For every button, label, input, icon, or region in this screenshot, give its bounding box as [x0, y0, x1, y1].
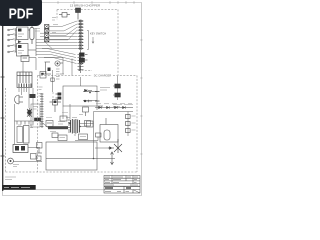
value label	[30, 125, 34, 128]
battery BT1	[46, 142, 97, 170]
resistor R2	[46, 121, 53, 127]
diode D5	[18, 40, 22, 43]
contactor K8	[79, 53, 87, 57]
contactor K6 coil	[24, 126, 30, 144]
fuse F3	[51, 78, 54, 81]
component X2	[59, 13, 70, 18]
wire	[93, 142, 95, 159]
meter M2	[8, 158, 14, 164]
wire arrow	[92, 37, 94, 43]
wire	[28, 49, 36, 51]
contactor K12	[56, 93, 62, 100]
switch S5	[8, 51, 17, 53]
value label	[132, 116, 136, 130]
value label	[50, 122, 65, 132]
component X4	[37, 156, 42, 161]
relay K10	[113, 93, 120, 97]
scanned page left edge	[2, 24, 4, 191]
wire	[80, 77, 82, 86]
wire	[13, 161, 42, 163]
converter box U2	[100, 118, 118, 142]
relay K11b	[31, 154, 37, 160]
wire	[44, 58, 64, 75]
note text	[5, 177, 16, 180]
wire junction	[79, 126, 80, 127]
svg-text:PDF: PDF	[9, 5, 34, 22]
connector J3	[30, 94, 36, 98]
wire junction	[69, 123, 70, 124]
resistor R3	[60, 116, 67, 121]
terminal block TB1	[17, 72, 32, 88]
wire	[75, 137, 110, 149]
bracket	[87, 31, 89, 50]
contactor K7 contacts	[13, 145, 40, 153]
svg-text:DC CHARGER: DC CHARGER	[94, 74, 112, 78]
value label	[96, 103, 132, 105]
relay K3	[21, 56, 29, 62]
switch S4	[8, 45, 17, 47]
diode D3	[85, 89, 100, 93]
svg-text:KEY SWITCH: KEY SWITCH	[90, 32, 106, 36]
relay K9	[113, 84, 120, 88]
value label	[34, 18, 58, 33]
diode chain D2	[95, 106, 133, 109]
fuse F1	[30, 25, 34, 44]
switch S2	[8, 34, 17, 36]
relay K13	[87, 121, 94, 127]
dashed enclosure: DC charger system	[6, 71, 138, 173]
transformer T1	[71, 119, 80, 134]
wire	[40, 104, 94, 136]
footer label bar	[2, 185, 104, 190]
wire	[22, 62, 24, 73]
relay K16	[50, 100, 62, 113]
wire	[35, 28, 37, 56]
value label	[13, 165, 19, 167]
wire	[94, 112, 134, 143]
title block	[104, 176, 140, 194]
resistor R6	[79, 134, 88, 140]
terminal strip TB3	[45, 25, 49, 42]
relay K14	[58, 135, 67, 141]
value label	[39, 87, 55, 97]
capacitor C2	[79, 58, 87, 62]
PDF badge	[0, 0, 42, 26]
value label	[100, 88, 110, 91]
connector J1	[78, 20, 84, 71]
value label	[66, 115, 83, 118]
relay K17	[40, 72, 46, 79]
contactor K4	[27, 108, 32, 117]
bus bar	[15, 121, 41, 125]
diode D4	[84, 100, 100, 103]
component X3	[37, 143, 43, 154]
fan M4	[108, 139, 122, 153]
terminal strip TB2	[40, 93, 44, 128]
switch S1	[8, 29, 17, 31]
charger enclosure box	[63, 86, 103, 110]
fuse F2	[83, 107, 89, 116]
relay K15	[52, 133, 58, 138]
wire	[14, 104, 16, 121]
wire	[80, 66, 82, 71]
value label	[46, 113, 68, 118]
wire	[71, 59, 73, 76]
svg-text:13 BRUSH CHOPPER: 13 BRUSH CHOPPER	[70, 4, 101, 8]
value label	[56, 69, 60, 79]
dashed enclosure: chopper panel	[57, 10, 118, 76]
wire	[19, 88, 33, 121]
wire harness W2	[36, 41, 77, 64]
relay K2	[17, 44, 29, 57]
value label	[113, 105, 133, 107]
title block text	[105, 177, 138, 185]
wire	[29, 58, 36, 71]
shunt R5	[46, 152, 115, 165]
bus node B+	[80, 20, 82, 74]
wire harness W1	[36, 21, 77, 48]
wire	[14, 121, 16, 144]
enclosure box	[31, 104, 40, 127]
sheet border	[3, 3, 142, 196]
component X1	[76, 8, 81, 20]
wire junction	[93, 158, 95, 160]
capacitor C1	[35, 118, 41, 121]
wire	[117, 76, 119, 100]
transformer T1 stubs	[68, 120, 71, 132]
wire	[28, 29, 30, 31]
contactor K5 coil	[17, 125, 23, 143]
capacitor C3	[126, 115, 131, 133]
terminal block TB1 pins	[19, 84, 31, 88]
resistor R7 bar	[48, 126, 68, 129]
component X5	[96, 133, 102, 137]
wire	[53, 70, 64, 119]
wire	[15, 28, 17, 52]
switch S3	[8, 39, 17, 41]
meter M3	[55, 61, 63, 66]
relay K1	[17, 27, 29, 40]
horn M1	[15, 95, 24, 104]
breaker CB1	[44, 62, 51, 74]
resistor R4	[85, 121, 91, 127]
